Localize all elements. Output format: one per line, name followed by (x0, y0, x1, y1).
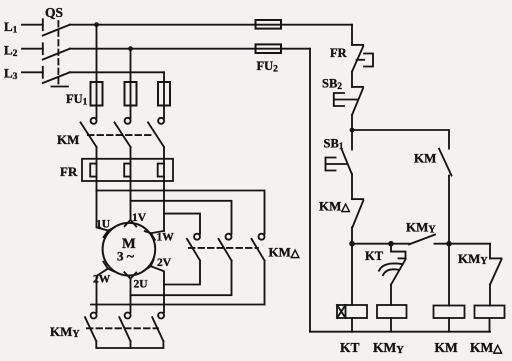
relay FR box (82, 159, 173, 181)
node junction L1/phase1 (94, 22, 99, 27)
wire L1 to FU2a and control corner (70, 24, 352, 26)
wire self-hold branch bottom (448, 176, 450, 244)
wire rail SB1 to KMdelta contact (351, 174, 353, 199)
contactor KMY pole1 blade (85, 317, 96, 341)
wire star bar mid stub (130, 341, 132, 348)
wire phase3 to motor 1W (151, 231, 164, 233)
contactor KMY pole1 fixed hook (91, 313, 97, 319)
button SB2 seat (352, 86, 363, 88)
svg-text:3 ~: 3 ~ (117, 249, 135, 265)
wire phase3 KM to FR (163, 147, 165, 231)
contactor KMdelta pole1 blade (187, 239, 200, 261)
wire KM coil to rail (448, 318, 450, 332)
motor terminal tooth 1V (125, 220, 137, 227)
svg-text:KMY: KMY (458, 251, 488, 267)
relay contact FR seat (352, 44, 363, 46)
contactor KMY pole3 blade (152, 317, 163, 341)
node junction L2/phase2 (128, 46, 133, 51)
contactor KM pole3 fixed hook (158, 118, 164, 124)
wire control left rail (309, 49, 311, 332)
button SB1 actuator E (326, 158, 347, 171)
wire node line right (435, 243, 491, 245)
wire motor 2U down (130, 279, 132, 313)
svg-text:2W: 2W (93, 274, 111, 286)
relay contact FR heater bracket (364, 54, 373, 67)
switch QS pole3 fixed contact (42, 67, 44, 78)
wire phase1 KM to FR (96, 147, 98, 191)
wire control bottom rail (310, 331, 490, 333)
wire L2 to FU2b and left control rail (70, 48, 310, 50)
button SB2 blade (352, 88, 363, 115)
wire KMdelta pole2 to 2U (131, 261, 232, 296)
contact KT delay arc outer (379, 263, 403, 270)
wire KT contact to KMY coil (390, 285, 392, 305)
svg-text:L2: L2 (4, 43, 18, 60)
node B junction (349, 241, 355, 247)
contactor KM pole1 blade (81, 122, 97, 147)
wire L3 to phase3 (70, 71, 164, 73)
wire phase2 KM to FR (130, 147, 132, 220)
contactor KM pole3 blade (148, 122, 164, 147)
svg-text:KT: KT (340, 340, 360, 355)
wire KMY coil to rail (390, 318, 392, 332)
wire KM coil branch (448, 244, 450, 306)
contactor KMdelta pole3 blade (252, 239, 265, 261)
wire phase1 vertical (96, 25, 98, 118)
node A junction (350, 128, 355, 133)
svg-text:2V: 2V (157, 257, 172, 269)
coil KM box (434, 306, 465, 319)
switch QS pole3 blade (43, 72, 70, 83)
svg-text:QS: QS (45, 5, 63, 20)
wire KMdelta coil to rail (489, 318, 491, 332)
coil KMdelta box (475, 306, 505, 319)
svg-text:KM△: KM△ (319, 199, 350, 214)
relay contact FR blade (352, 46, 363, 71)
switch QS linkage (dashed) (57, 21, 59, 85)
contactor KMdelta pole1 fixed hook (194, 234, 200, 240)
contactor KM pole2 fixed hook (125, 118, 131, 124)
switch QS pole1 blade (43, 25, 70, 36)
contactor KM pole2 blade (115, 122, 131, 147)
svg-text:2U: 2U (134, 279, 149, 291)
wire node line left (352, 243, 409, 245)
wire phase1 to motor 1U (97, 191, 109, 231)
relay FR heater3 (158, 164, 164, 177)
relay FR heater2 (124, 164, 130, 177)
contactor KMdelta pole2 fixed hook (226, 234, 232, 240)
contact KMdelta NC seat (352, 198, 363, 200)
contact KMY NC blade (490, 259, 502, 284)
motor terminal tooth 2U (124, 272, 136, 278)
contactor KMY pole2 blade (119, 317, 130, 341)
switch QS pole2 blade (43, 49, 70, 60)
svg-text:FU2: FU2 (257, 59, 279, 75)
relay contact FR heater stub (357, 59, 365, 61)
wire motor 2V down (151, 266, 164, 312)
switch QS linkage bar (52, 86, 69, 88)
wire KT coil branch (351, 244, 353, 305)
relay FR heater1 (90, 164, 96, 177)
wire self-hold branch top (352, 130, 449, 149)
svg-text:KM: KM (57, 132, 79, 147)
svg-text:L3: L3 (4, 66, 18, 83)
wire KMY NC drop (489, 244, 491, 259)
contact KT seat (399, 257, 406, 259)
motor terminal tooth 1W (145, 231, 155, 240)
contact KMY NO blade (409, 235, 435, 245)
svg-text:1W: 1W (157, 232, 175, 244)
wire phase3 vertical (163, 72, 165, 118)
fuse FU2b (256, 44, 282, 53)
svg-text:KMY: KMY (406, 220, 436, 236)
wire KMY NC to KMdelta coil (489, 285, 491, 306)
button SB2 actuator E (334, 93, 357, 106)
wire star point bar (96, 341, 163, 348)
wire rail node A to SB1 (351, 130, 353, 150)
svg-text:L1: L1 (4, 19, 18, 36)
wire phase3 branch to KMdelta pole1 (164, 214, 200, 234)
wire KT coil to rail (351, 318, 353, 332)
fuse FU1 pole1 (91, 82, 103, 106)
svg-text:FR: FR (330, 46, 348, 60)
coil KT delay marker (337, 305, 346, 318)
node D junction (446, 241, 452, 247)
contactor KMY pole3 fixed hook (158, 313, 164, 319)
wire rail SB2 to node A (351, 115, 353, 130)
contactor KMY pole2 fixed hook (125, 313, 131, 319)
contact KT delay arc inner (383, 269, 399, 275)
svg-text:KM△: KM△ (470, 340, 503, 355)
wire KMdelta pole1 to 2V (164, 261, 200, 285)
contact KMdelta NC blade (352, 201, 363, 228)
wire rail FR to SB2 (351, 72, 353, 87)
coil KT box (337, 305, 367, 318)
svg-text:FU1: FU1 (66, 92, 88, 108)
wire L1 stub (22, 24, 43, 26)
node C junction (388, 241, 394, 247)
wire motor 2W down (97, 269, 108, 313)
motor M circle (103, 223, 156, 276)
motor terminal tooth 2V (144, 260, 154, 271)
wire phase1 branch to KMdelta pole3 (97, 191, 265, 234)
svg-text:SB2: SB2 (322, 77, 342, 93)
wire rail KMdelta to node B (351, 227, 353, 243)
svg-text:KM△: KM△ (269, 245, 300, 260)
fuse FU1 pole2 (125, 82, 137, 106)
wire L2 stub (22, 48, 43, 50)
wire L3 stub (22, 71, 43, 73)
wire KMdelta pole3 down (264, 261, 266, 305)
motor terminal tooth 2W (103, 262, 114, 272)
contactor KMdelta pole3 fixed hook (259, 234, 265, 240)
fuse FU2a (256, 20, 282, 29)
button SB1 blade (342, 149, 352, 174)
svg-text:1V: 1V (132, 212, 147, 224)
switch QS pole2 fixed contact (42, 43, 44, 54)
contact KT jog wire (391, 244, 406, 259)
motor terminal tooth 1U (104, 227, 115, 237)
coil KMY box (377, 305, 407, 318)
contactor KMY linkage (dashed) (87, 327, 158, 329)
contactor KM pole1 fixed hook (91, 118, 97, 124)
contact KMY NC seat (490, 257, 502, 259)
svg-text:KM: KM (414, 151, 436, 166)
svg-text:SB1: SB1 (324, 137, 344, 153)
contact KT blade (391, 259, 406, 284)
contactor KMdelta pole2 blade (219, 239, 232, 261)
contactor KMY pole1 stem (96, 305, 98, 313)
svg-text:KT: KT (365, 249, 384, 263)
wire control right drop (351, 25, 353, 45)
svg-text:KMY: KMY (50, 324, 80, 340)
svg-text:FR: FR (60, 164, 78, 179)
contactor KMdelta linkage (dashed) (189, 247, 258, 249)
wire phase2 branch to KMdelta pole2 (131, 201, 232, 234)
switch QS pole1 fixed contact (42, 19, 44, 30)
svg-text:1U: 1U (96, 219, 111, 231)
svg-text:KMY: KMY (373, 340, 404, 356)
fuse FU1 pole3 (158, 82, 170, 106)
contactor KM linkage (dashed) (88, 134, 152, 136)
contact KM blade (439, 149, 452, 176)
wire star bus to 2W (91, 304, 265, 306)
svg-text:KM: KM (435, 340, 459, 355)
wire phase2 vertical (130, 49, 132, 118)
